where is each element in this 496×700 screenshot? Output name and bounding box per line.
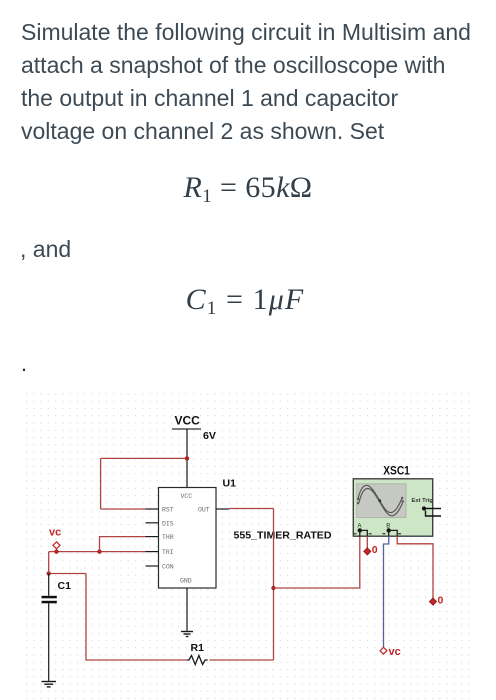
- label C1: [58, 580, 72, 592]
- equation R1 = 65k ohm: [0, 171, 496, 205]
- wire VCC to RST horizontal: [101, 457, 187, 459]
- svg-text:VCC: VCC: [175, 413, 201, 427]
- power VCC label: [175, 413, 201, 427]
- wire A+ stub: [359, 530, 361, 536]
- connector vc at B+: [380, 647, 387, 654]
- svg-text:vc: vc: [49, 527, 61, 539]
- svg-text:OUT: OUT: [198, 507, 210, 514]
- wire vc net horizontal TRI: [49, 551, 146, 553]
- svg-text:TRI: TRI: [162, 549, 174, 556]
- connector 0 at B-: [429, 598, 436, 605]
- junction OUT node: [271, 586, 275, 590]
- svg-text:RST: RST: [162, 507, 174, 514]
- scope waveform: [357, 485, 404, 516]
- pin label DIS: [162, 520, 174, 527]
- resistor R1: [187, 656, 208, 665]
- junction vc connector: [54, 549, 58, 553]
- wire A- bracket: [360, 530, 368, 536]
- svg-text:XSC1: XSC1: [383, 466, 410, 478]
- svg-text:555_TIMER_RATED: 555_TIMER_RATED: [234, 531, 332, 542]
- pin label CON: [162, 564, 174, 571]
- wire B- to ground connector: [397, 536, 433, 598]
- oscilloscope XSC1 body: [353, 479, 432, 536]
- period: [21, 352, 27, 377]
- wire OUT horizontal: [229, 508, 274, 510]
- label U1: [223, 478, 237, 490]
- wire OUT to scope A: [274, 536, 360, 588]
- svg-text:0: 0: [438, 595, 444, 607]
- ground C1: [42, 682, 57, 687]
- wire R1 left to corner: [86, 574, 187, 661]
- label vc at B+: [389, 646, 401, 658]
- label 0 at B-: [438, 595, 444, 607]
- pin label VCC: [181, 493, 193, 500]
- wire OUT vertical down: [273, 509, 275, 661]
- wire corner to C1 node: [49, 573, 86, 575]
- svg-text:GND: GND: [180, 578, 192, 585]
- pin label GND: [180, 578, 192, 585]
- terminal B: [382, 528, 401, 534]
- wire B+ stub: [388, 530, 390, 536]
- label 0 at A-: [372, 544, 378, 556]
- pin label OUT: [198, 507, 210, 514]
- svg-text:Ext Trig: Ext Trig: [412, 498, 434, 504]
- terminal Ext Trig: [422, 506, 441, 516]
- svg-text:R1: R1: [191, 642, 205, 654]
- svg-text:VCC: VCC: [181, 493, 193, 500]
- svg-text:CON: CON: [162, 564, 174, 571]
- pin label TRI: [162, 549, 174, 556]
- svg-text:DIS: DIS: [162, 520, 174, 527]
- wire VCC lead down to U1 VCC pin: [186, 429, 188, 488]
- svg-text:U1: U1: [223, 478, 237, 490]
- pin CON stub: [146, 565, 159, 567]
- label XSC1: [383, 466, 410, 478]
- label Ext Trig: [412, 498, 434, 504]
- terminal A: [354, 528, 372, 534]
- pin TRI stub: [146, 551, 159, 553]
- svg-text:0: 0: [372, 544, 378, 556]
- pin OUT stub: [216, 508, 229, 510]
- , and: [20, 233, 71, 266]
- wire B+ blue to vc connector: [384, 536, 389, 647]
- wire GND pin down: [186, 588, 188, 631]
- svg-text:vc: vc: [389, 646, 401, 658]
- pin DIS stub: [146, 522, 159, 524]
- wire B- bracket: [389, 530, 398, 536]
- value 6V: [203, 430, 216, 442]
- junction THR branch: [97, 549, 101, 553]
- pin label THR: [162, 534, 174, 541]
- label 555_TIMER_RATED: [234, 531, 332, 542]
- label B: [386, 524, 390, 530]
- junction C1 node: [47, 571, 51, 575]
- pin label RST: [162, 507, 174, 514]
- wire RST vertical: [100, 458, 102, 509]
- wire vc net down to C1: [48, 552, 50, 574]
- wire to RST pin: [101, 508, 146, 510]
- svg-text:6V: 6V: [203, 430, 216, 442]
- connector 0 at A-: [364, 548, 371, 555]
- svg-text:C1: C1: [58, 580, 72, 592]
- equation C1 = 1uF: [0, 283, 493, 317]
- wire bottom to R1 right: [210, 659, 274, 661]
- ground chip: [181, 632, 193, 637]
- svg-text:THR: THR: [162, 534, 174, 541]
- pin RST stub: [146, 508, 159, 510]
- label A: [358, 524, 362, 530]
- wire THR branch: [100, 537, 146, 552]
- power VCC symbol bar: [172, 428, 201, 430]
- wire A- to ground connector: [366, 536, 368, 548]
- paragraph text: [21, 16, 471, 148]
- junction VCC node: [185, 456, 189, 460]
- label R1: [191, 642, 205, 654]
- connector vc diamond: [53, 542, 60, 552]
- pin THR stub: [146, 536, 159, 538]
- capacitor C1: [42, 574, 57, 682]
- op-amp U1 555 timer body: [159, 488, 217, 589]
- label vc: [49, 527, 61, 539]
